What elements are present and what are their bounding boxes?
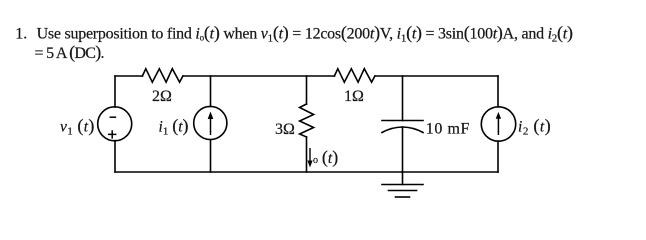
wire capacitor branch upper	[402, 76, 404, 121]
wire capacitor branch lower	[402, 127, 404, 172]
svg-text:Use superposition to find io(t: Use superposition to find io(t) when v1(…	[37, 22, 573, 44]
wire 3ohm branch upper	[306, 76, 308, 104]
svg-text:3Ω: 3Ω	[275, 121, 295, 138]
svg-text:10 mF: 10 mF	[426, 121, 470, 138]
current source I1 circle	[194, 106, 227, 139]
wire i2 branch upper	[497, 76, 499, 107]
current source I2 circle	[481, 107, 515, 141]
ground bar 3	[396, 196, 410, 198]
capacitor C 10mF bottom curved plate	[382, 127, 423, 133]
svg-text:1.: 1.	[15, 25, 27, 42]
ground stub wire	[402, 172, 404, 185]
wire left branch upper	[114, 76, 116, 107]
wire bottom	[115, 171, 498, 173]
svg-text:= 5 A (DC).: = 5 A (DC).	[35, 42, 104, 63]
resistor R 1ohm	[334, 69, 375, 83]
svg-text:o (t): o (t)	[313, 147, 338, 168]
wire left branch lower	[114, 141, 116, 172]
current source I2 arrow	[496, 112, 501, 135]
voltage source V1 plus sign	[108, 130, 116, 138]
svg-text:1Ω: 1Ω	[344, 88, 364, 105]
svg-text:v1 (t): v1 (t)	[60, 116, 95, 138]
wire top middle segment	[183, 75, 335, 77]
wire top left segment	[115, 75, 142, 77]
wire i1 branch lower	[210, 140, 212, 172]
wire i2 branch lower	[497, 141, 499, 172]
capacitor C 10mF top plate	[382, 120, 423, 122]
current source I1 arrow	[208, 112, 214, 136]
wire top right segment	[375, 75, 498, 77]
wire 3ohm branch lower	[306, 137, 308, 172]
resistor R 2ohm	[142, 69, 183, 83]
svg-text:2Ω: 2Ω	[152, 88, 172, 105]
ground bar 2	[389, 190, 417, 192]
wire i1 branch upper	[210, 76, 212, 106]
ground bar 1	[382, 184, 423, 186]
svg-text:i2 (t): i2 (t)	[518, 116, 551, 138]
svg-text:i1 (t): i1 (t)	[159, 116, 189, 138]
resistor R 3ohm	[300, 104, 314, 137]
voltage source V1 circle	[98, 107, 132, 141]
current io arrow	[307, 148, 312, 168]
voltage source V1 minus sign	[110, 116, 117, 118]
